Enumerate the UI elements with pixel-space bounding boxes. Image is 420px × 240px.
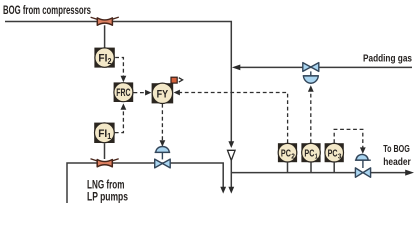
signal PC2 to FY (dashed)	[180, 93, 288, 144]
wire PC2 stem	[287, 162, 289, 172]
svg-text:PC: PC	[328, 147, 338, 159]
svg-text:To BOG: To BOG	[383, 143, 410, 155]
wire padding gas line	[237, 66, 412, 68]
arrow into FRC bottom	[121, 103, 127, 109]
arrow into LNG valve actuator	[160, 140, 166, 146]
signal FRC to FY (dashed)	[134, 92, 147, 94]
wire BOG line from compressors (top horizontal, turns down at right)	[5, 22, 231, 142]
arrow into FRC top	[121, 76, 127, 82]
svg-text:2: 2	[108, 57, 112, 66]
signal PC3 to header valve (dashed)	[334, 129, 363, 147]
svg-text:2: 2	[291, 152, 295, 161]
instrument PC2	[278, 143, 297, 162]
svg-text:FRC: FRC	[116, 87, 130, 99]
arrow right to BOG header	[405, 170, 414, 176]
svg-text:FY: FY	[157, 88, 169, 100]
wire LNG line from LP pumps	[67, 163, 223, 203]
control valve CV1 on LNG line (actuator dome above)	[155, 147, 171, 168]
svg-text:PC: PC	[281, 147, 291, 159]
svg-text:LNG from: LNG from	[87, 180, 125, 192]
valve V1 butterfly on BOG line	[91, 17, 119, 25]
arrow down on BOG vertical above triangle	[228, 141, 234, 148]
instrument FI2	[94, 48, 114, 68]
signal PC1 to padding valve (dashed)	[310, 92, 312, 143]
wire valve V1 to FI2	[104, 25, 106, 47]
arrow into FY right	[174, 90, 180, 96]
signal FI2 to FRC (dashed)	[115, 58, 123, 76]
arrow down into header valve actuator	[360, 147, 366, 153]
wire FI1 to valve V2	[104, 143, 106, 159]
svg-text:BOG from compressors: BOG from compressors	[3, 5, 91, 17]
svg-text:1: 1	[315, 152, 318, 161]
svg-text:3: 3	[338, 152, 342, 161]
signal FI1 to FRC (dashed)	[115, 110, 124, 133]
svg-text:LP pumps: LP pumps	[87, 192, 128, 204]
connector square at FY top right	[171, 77, 177, 83]
connector chevron	[179, 78, 183, 82]
control valve CV2 on padding gas line (actuator dome below)	[303, 63, 319, 84]
svg-text:Padding gas: Padding gas	[363, 52, 412, 64]
instrument PC1	[301, 143, 320, 162]
control valve CV3 on BOG header line (actuator dome above)	[355, 154, 371, 177]
arrow up into padding valve actuator	[308, 85, 314, 92]
instrument FI1	[94, 123, 114, 143]
wire BOG vertical below triangle into tank	[230, 160, 232, 187]
arrow down at bottom of BOG vertical	[228, 187, 234, 194]
arrow left at end of padding gas line	[232, 65, 240, 71]
svg-text:FI: FI	[98, 128, 107, 140]
svg-text:header: header	[383, 156, 411, 168]
open triangle (vent) on BOG vertical	[228, 150, 236, 160]
svg-text:PC: PC	[304, 147, 314, 159]
instrument FRC	[114, 82, 134, 102]
instrument PC3	[325, 143, 344, 162]
wire PC3 stem	[333, 162, 335, 172]
valve V2 butterfly on LNG line	[91, 159, 119, 167]
instrument FY	[152, 83, 174, 103]
wire to BOG header line	[231, 172, 406, 174]
svg-text:FI: FI	[98, 53, 107, 65]
arrow down at bottom of LNG drop	[220, 187, 226, 194]
signal FY to LNG control valve (dashed)	[161, 104, 163, 141]
wire PC1 stem	[310, 162, 312, 172]
arrow into FY left	[145, 90, 151, 96]
svg-text:1: 1	[107, 132, 111, 141]
